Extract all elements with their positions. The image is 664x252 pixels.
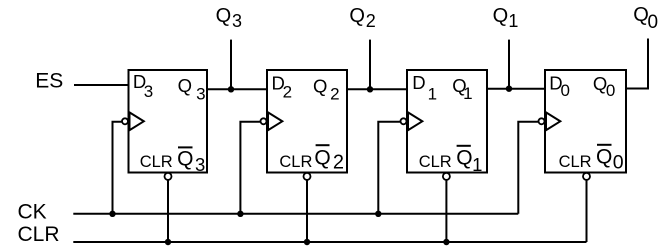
wire Q1 stub down to data line	[508, 40, 510, 90]
node Q2 top label	[349, 5, 375, 31]
svg-text:Q: Q	[313, 75, 327, 96]
wire CK bus to U1 clock	[113, 122, 122, 214]
svg-text:2: 2	[283, 82, 292, 101]
wire U1 CLR pin to CLR bus	[167, 180, 169, 242]
wire U2 Q2 to U3 D1	[346, 88, 408, 90]
junction dot node Q3	[228, 86, 234, 92]
pin label Q-bar-3	[177, 147, 205, 175]
wire Q3 stub down to data line	[230, 40, 232, 91]
svg-text:D: D	[412, 72, 425, 93]
clear bubble U4	[583, 173, 590, 180]
clock edge triangle U3	[408, 112, 422, 130]
svg-text:Q: Q	[456, 146, 472, 169]
junction dot CLR-U3	[443, 239, 449, 245]
svg-text:1: 1	[463, 84, 472, 103]
junction dot CLR-U1	[165, 239, 171, 245]
svg-text:2: 2	[333, 152, 344, 174]
svg-text:Q: Q	[216, 5, 232, 27]
svg-text:CLR: CLR	[419, 153, 452, 171]
wire CK bus to U3 clock	[378, 122, 400, 214]
svg-text:Q: Q	[177, 147, 193, 170]
pin label D2	[271, 73, 292, 102]
pin label Q-bar-1	[456, 146, 482, 175]
clear bubble U2	[304, 173, 311, 180]
junction dot CK-U1	[109, 211, 115, 217]
svg-text:1: 1	[508, 11, 518, 31]
svg-text:0: 0	[613, 152, 624, 174]
pin label Q-bar-0	[596, 145, 624, 174]
pin label Q1 (U3 output)	[452, 75, 472, 103]
wire ES to U1 D input	[74, 84, 129, 86]
node Q1 top label	[493, 5, 519, 31]
clock bubble U3	[401, 118, 407, 124]
svg-text:0: 0	[606, 81, 615, 100]
pin label Q0 (U4 output)	[593, 73, 615, 100]
wire CK bus to U4 clock	[518, 122, 538, 214]
clock bubble U4	[539, 118, 545, 124]
svg-text:3: 3	[144, 82, 153, 101]
CLR bus wire	[73, 241, 586, 243]
pin label Q-bar-2	[314, 145, 344, 173]
wire Q2 stub down to data line	[369, 40, 371, 91]
svg-text:CLR: CLR	[140, 153, 173, 171]
junction dot CK-U2	[237, 211, 243, 217]
svg-text:0: 0	[648, 12, 659, 33]
pin label D1	[412, 72, 437, 103]
junction dot CK-U3	[375, 211, 381, 217]
svg-text:2: 2	[366, 11, 376, 31]
flip-flop U2 box	[267, 70, 347, 173]
clock edge triangle U1	[130, 112, 144, 130]
svg-text:1: 1	[472, 154, 482, 175]
svg-text:Q: Q	[178, 75, 192, 96]
svg-text:1: 1	[428, 84, 437, 103]
svg-text:Q: Q	[596, 146, 612, 169]
svg-text:3: 3	[196, 84, 205, 103]
flip-flop U4 box	[545, 70, 626, 173]
wire U1 Q3 to U2 D2	[206, 88, 268, 90]
svg-text:ES: ES	[35, 69, 63, 92]
junction dot node Q1	[506, 86, 512, 92]
pin label D0	[549, 73, 570, 101]
pin label D3	[133, 71, 153, 101]
svg-text:Q: Q	[349, 5, 365, 27]
wire CK bus to U2 clock	[240, 122, 260, 214]
svg-text:Q: Q	[314, 146, 330, 169]
svg-text:Q: Q	[493, 5, 509, 27]
clock bubble U1	[122, 118, 128, 124]
flip-flop U1 box	[129, 70, 208, 173]
flip-flop U3 box	[407, 70, 487, 173]
clear bubble U3	[443, 173, 450, 180]
wire U4 CLR pin to CLR bus	[586, 180, 588, 242]
svg-text:0: 0	[560, 81, 569, 100]
pin label Q3 (U1 output)	[178, 75, 206, 104]
svg-text:Q: Q	[633, 4, 649, 26]
svg-text:3: 3	[232, 11, 242, 31]
clock edge triangle U2	[268, 112, 282, 130]
wire U3 Q1 to U4 D0	[486, 88, 546, 90]
clear bubble U1	[165, 173, 172, 180]
svg-text:CLR: CLR	[18, 223, 60, 246]
node Q3 top label	[216, 5, 242, 31]
node Q0 top label	[633, 4, 658, 33]
svg-text:2: 2	[330, 85, 339, 104]
svg-text:CLR: CLR	[559, 153, 592, 171]
svg-text:CLR: CLR	[279, 153, 312, 171]
svg-text:3: 3	[195, 154, 205, 175]
clock edge triangle U4	[546, 112, 560, 130]
wire U4 Q0 output up to Q0 label	[625, 39, 648, 89]
pin label Q2 (U2 output)	[313, 75, 340, 103]
svg-text:CK: CK	[18, 200, 47, 223]
junction dot node Q2	[367, 86, 373, 92]
junction dot CLR-U2	[304, 239, 310, 245]
CK bus wire	[73, 213, 518, 215]
clock bubble U2	[261, 118, 267, 124]
wire U3 CLR pin to CLR bus	[445, 180, 447, 242]
wire U2 CLR pin to CLR bus	[306, 180, 308, 242]
